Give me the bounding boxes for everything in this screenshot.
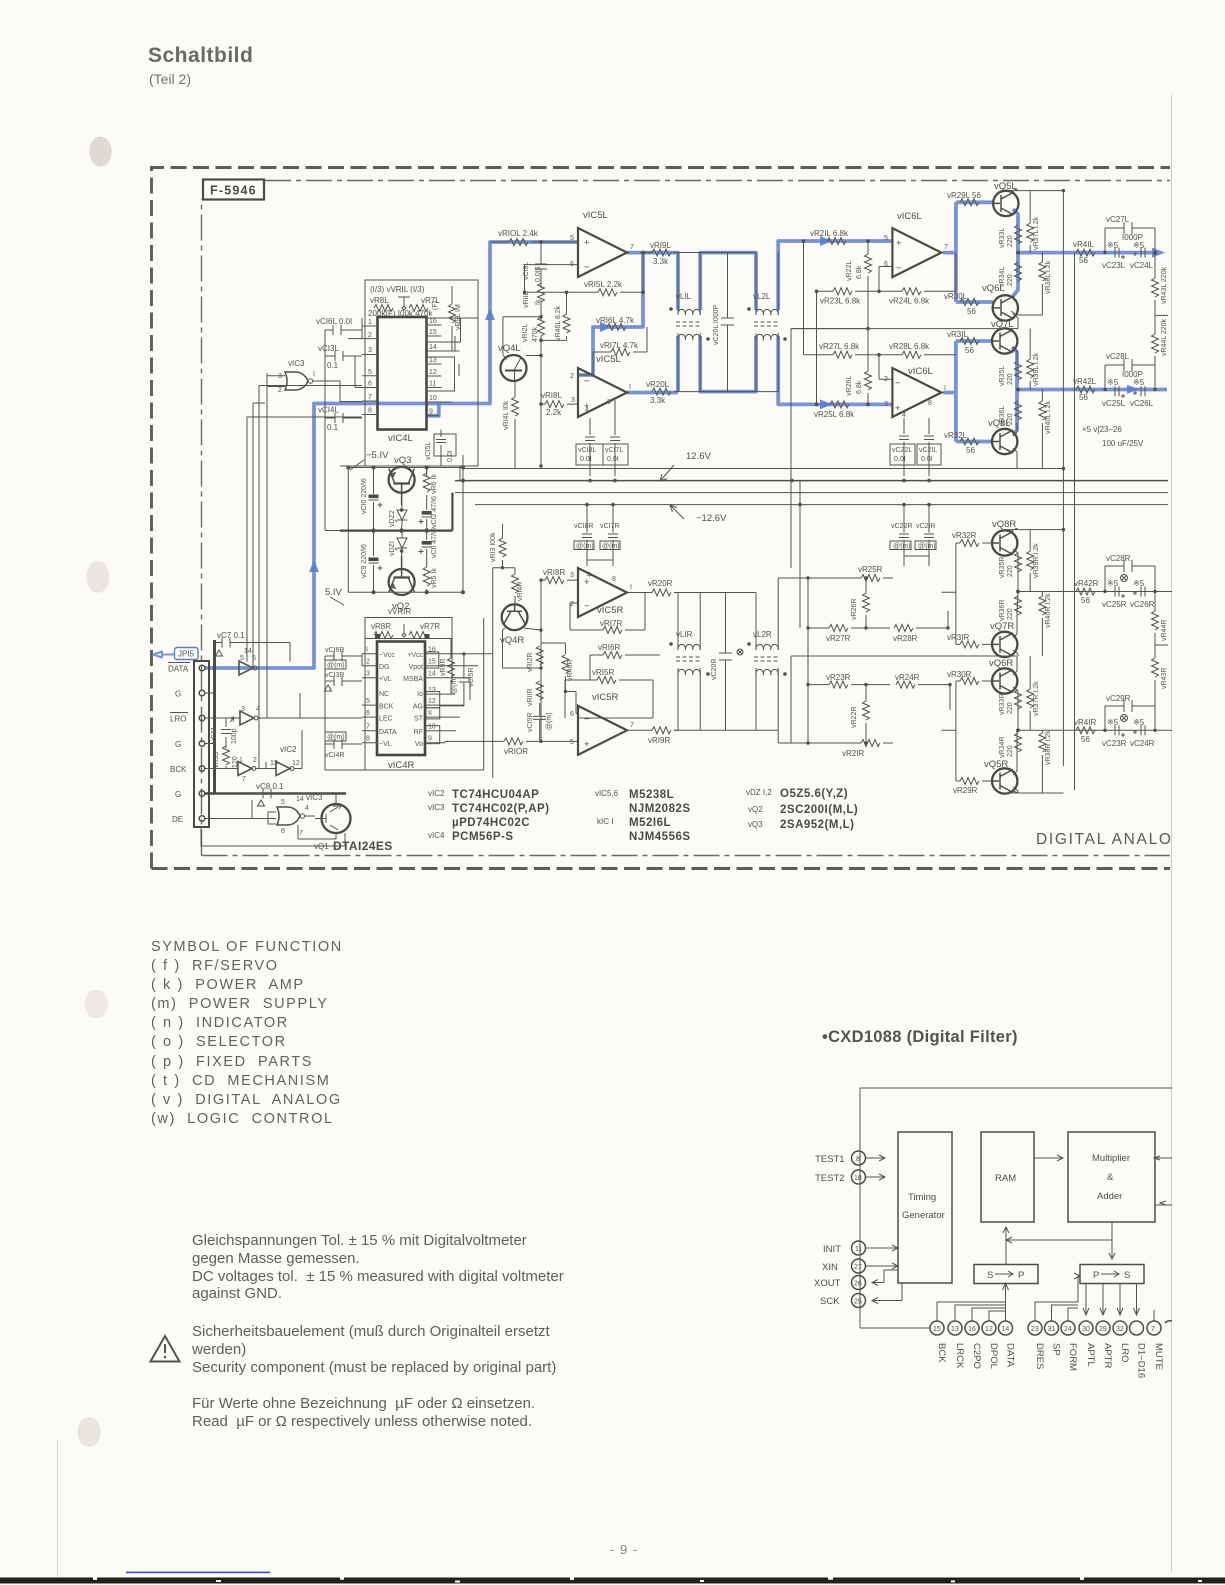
capacitor vC16L (316, 317, 362, 335)
svg-text:vRI4R: vRI4R (517, 582, 524, 601)
inductor vL2R core (754, 657, 780, 661)
svg-text:LRO: LRO (1119, 1343, 1130, 1363)
svg-text:7: 7 (299, 830, 303, 837)
svg-text:vR36L: vR36L (999, 406, 1006, 426)
resistor vR9R (440, 639, 455, 695)
svg-text:5: 5 (570, 235, 574, 242)
svg-text:vR37L I.2k: vR37L I.2k (1033, 216, 1040, 250)
resistor vR27L (804, 342, 903, 358)
block RAM (981, 1132, 1034, 1222)
wire LRO net (205, 693, 362, 718)
label 5.1V (325, 587, 344, 605)
svg-text:vR26L: vR26L (846, 376, 853, 396)
pin group box IC4R 10-9 (426, 726, 440, 744)
svg-text:0.1: 0.1 (327, 361, 339, 370)
wire right buffer bus (941, 543, 992, 781)
resistor vR29R 56 (953, 778, 979, 796)
resistor vR29L 56 (947, 191, 982, 206)
wire vC7 drop (247, 643, 290, 662)
capacitor vC28L bridge (1105, 352, 1155, 390)
svg-text:vR20R: vR20R (648, 579, 673, 588)
parts column 3 (746, 788, 858, 831)
svg-text:S: S (987, 1270, 993, 1281)
svg-text:13: 13 (951, 1326, 959, 1333)
inverter vIC2a (DATA) (239, 648, 257, 675)
wire op supply drops (587, 404, 929, 628)
svg-text:vQ6R: vQ6R (989, 658, 1013, 669)
svg-text:V​pot: V​pot (409, 664, 423, 671)
svg-text:vR32L: vR32L (944, 431, 968, 440)
svg-text:×5 v[23–26: ×5 v[23–26 (1082, 425, 1122, 434)
transistor vQ5R (992, 768, 1017, 793)
resistor vR11R (527, 681, 543, 706)
capacitor vC19R (527, 703, 553, 741)
pin G3 (199, 791, 205, 797)
resistor vR21L 6.8k (810, 229, 849, 245)
svg-text:vIC2: vIC2 (280, 745, 297, 754)
svg-text:vRIOL 2.4k: vRIOL 2.4k (498, 229, 539, 238)
svg-text:2.2k: 2.2k (546, 408, 562, 417)
outer dashed frame (152, 168, 1171, 869)
svg-text:9: 9 (429, 409, 433, 416)
svg-text:SP: SP (1051, 1343, 1062, 1356)
svg-text:vLIL: vLIL (676, 292, 692, 301)
outer dashed frame bottom (152, 867, 1171, 870)
svg-text:Adder: Adder (1097, 1191, 1122, 1202)
wire +12.6V rail upper feed (463, 468, 1063, 470)
svg-text:vC28R: vC28R (1106, 554, 1131, 563)
svg-text:vRI7L 4.7k: vRI7L 4.7k (600, 341, 639, 350)
wire -12.6V rail (475, 504, 1168, 506)
IC vIC4L right pins (427, 325, 460, 416)
pin numbers right IC4R (428, 647, 436, 743)
transistor vQ5L (993, 191, 1019, 216)
op-amp vIC6L (bottom) (884, 366, 946, 419)
wire vQ8R collector top (1006, 528, 1063, 532)
svg-text:6: 6 (366, 710, 370, 717)
junction dots crossover (802, 239, 881, 406)
bottom pin DPOL (982, 1311, 1005, 1369)
capacitor vC17R (600, 505, 620, 566)
svg-text:vQ4R: vQ4R (500, 635, 524, 646)
svg-text:+: + (896, 238, 902, 249)
capacitor vC7 (215, 631, 291, 656)
wire bias node (493, 568, 515, 778)
trimmer network box vVR1L (365, 280, 478, 466)
subtitle (Teil 2) (149, 71, 191, 87)
capacitor vC24L (1130, 241, 1154, 270)
svg-text:3: 3 (368, 347, 372, 354)
phase dots right (669, 642, 787, 676)
svg-text:vCI8L: vCI8L (578, 447, 596, 454)
svg-text:DPOL: DPOL (988, 1343, 999, 1369)
svg-text:vL2L: vL2L (753, 292, 771, 301)
inductor vL2R bottom winding (756, 668, 778, 730)
svg-text:(F): (F) (432, 301, 439, 310)
wire vQ4R loop (503, 580, 542, 741)
svg-text:vRI5L 2.2k: vRI5L 2.2k (584, 280, 623, 289)
svg-text:vIC5,6: vIC5,6 (595, 789, 619, 798)
svg-text:6: 6 (281, 828, 285, 835)
svg-text:vR42R: vR42R (1074, 579, 1099, 588)
resistor vR44L 220k (1152, 315, 1169, 366)
pin BCK (199, 766, 205, 772)
wire LC link top (673, 253, 778, 392)
resistor vR27R (808, 625, 890, 644)
wire riser joins (253, 376, 362, 403)
svg-text:vRI9L: vRI9L (650, 241, 671, 250)
svg-text:vIC4: vIC4 (428, 831, 445, 840)
op-amp vIC6L (top) (884, 211, 948, 277)
svg-text:vRI8R: vRI8R (543, 568, 565, 577)
phase dots (669, 307, 787, 341)
wire vQ6L emitter return (791, 314, 1018, 329)
svg-text:vR53: vR53 (213, 752, 220, 768)
svg-text:vQ2: vQ2 (748, 805, 763, 814)
svg-text:vC25L: vC25L (1102, 399, 1126, 408)
svg-text:DRES: DRES (1034, 1343, 1045, 1369)
svg-text:※5: ※5 (1133, 241, 1145, 250)
svg-text:I000P: I000P (1122, 233, 1143, 242)
svg-text:56: 56 (1081, 596, 1090, 605)
bottom pin SP (1045, 1305, 1079, 1356)
svg-text:vRIOR: vRIOR (504, 747, 528, 756)
junction dots mid column (501, 566, 567, 743)
label vQ1 DTA124ES (314, 839, 393, 853)
svg-text:−12.6V: −12.6V (696, 513, 727, 524)
note security component (192, 1323, 556, 1376)
svg-text:vRI2L: vRI2L (522, 324, 529, 342)
svg-text:vR40L I.2k: vR40L I.2k (1045, 400, 1052, 434)
svg-text:NJM4556S: NJM4556S (629, 831, 691, 843)
svg-text:0.1: 0.1 (327, 423, 339, 432)
svg-text:vR35L: vR35L (999, 366, 1006, 386)
inverter vIC2b (LRO) (240, 706, 260, 725)
svg-text:220: 220 (1007, 565, 1014, 577)
svg-text:4: 4 (585, 407, 589, 414)
resistor vR18L 2.2k (541, 391, 578, 417)
svg-text:4: 4 (305, 805, 309, 812)
svg-text:M52I6L: M52I6L (629, 817, 671, 829)
svg-text:16: 16 (429, 318, 437, 325)
junction mark (737, 649, 743, 655)
svg-text:vRI7R: vRI7R (600, 619, 622, 628)
long vertical feed B (1074, 253, 1076, 790)
svg-text:+: + (895, 403, 901, 414)
arrow blue vR25L (820, 399, 832, 409)
svg-text:vCI0 220/I6: vCI0 220/I6 (361, 478, 368, 514)
svg-text:12.6V: 12.6V (686, 451, 711, 462)
svg-text:INIT: INIT (823, 1244, 841, 1255)
hole punch upper-middle (86, 561, 109, 593)
transistor vQ2 (389, 556, 415, 595)
svg-text:vR30R: vR30R (947, 670, 972, 679)
capacitor vC11 47/16 (419, 528, 439, 558)
IC vIC4L left pins (362, 326, 378, 415)
resistor vR13 100k (490, 524, 506, 568)
capacitor vC15R (451, 654, 475, 706)
svg-text:BCK: BCK (170, 765, 187, 774)
svg-text:V​o: V​o (415, 741, 423, 748)
svg-text:13: 13 (428, 687, 436, 694)
inner dash-dot frame (202, 181, 1171, 856)
svg-text:C2PO: C2PO (971, 1343, 982, 1369)
resistor vR15R (565, 668, 653, 718)
wire power section frame (325, 455, 463, 592)
capacitor vC13R (325, 672, 363, 691)
svg-text:29: 29 (1099, 1326, 1107, 1333)
inductor vL2L top winding (756, 253, 778, 316)
resistor vR32L 56 (944, 431, 979, 455)
IC vIC4R body (377, 642, 425, 756)
capacitor vC28R bridge (1105, 554, 1155, 592)
svg-text:vQ7R: vQ7R (990, 621, 1014, 632)
resistor vR38L 1.2k (1011, 253, 1052, 315)
capacitor vC22L (890, 418, 915, 476)
svg-text:15: 15 (429, 329, 437, 336)
zener vDZ2 (389, 505, 407, 527)
page number (610, 1542, 638, 1557)
resistor vR34R 220 (999, 733, 1022, 758)
svg-text:G: G (175, 690, 181, 699)
resistor vR26R vertical (851, 578, 870, 628)
wire right main outs (1018, 592, 1172, 731)
resistor vR12L 470k (522, 317, 545, 342)
svg-text:TEST2: TEST2 (815, 1173, 845, 1184)
svg-text:3.3k: 3.3k (650, 396, 666, 405)
svg-text:2: 2 (368, 332, 372, 339)
svg-text:vR25R: vR25R (858, 565, 883, 574)
svg-text:DATA: DATA (379, 729, 397, 736)
resistor vR9L 1M (449, 286, 463, 351)
junction dots power (346, 466, 465, 595)
svg-text:II: II (428, 710, 432, 717)
resistor vR15L 2.2k (525, 253, 644, 296)
svg-text:10: 10 (428, 724, 436, 731)
resistor vR37R 1.2k (1027, 656, 1040, 730)
svg-text:15: 15 (933, 1326, 941, 1333)
svg-text:※5: ※5 (1107, 378, 1119, 387)
svg-text:I: I (630, 584, 632, 591)
svg-text:6: 6 (570, 711, 574, 718)
svg-text:※5: ※5 (1107, 579, 1119, 588)
capacitor vC31 100p (211, 717, 238, 748)
svg-text:7: 7 (1151, 1326, 1155, 1333)
capacitor vC20R (711, 593, 732, 731)
note electrolytic (1082, 425, 1144, 448)
svg-text:vR20L: vR20L (646, 380, 670, 389)
svg-text:−: − (584, 262, 590, 273)
connector JP15 label box (175, 648, 199, 660)
svg-text:vIC2: vIC2 (428, 789, 445, 798)
wire blue vL2L to amps (778, 241, 892, 404)
warning triangle (151, 1336, 180, 1362)
svg-text:3: 3 (241, 706, 245, 713)
svg-text:0.0I: 0.0I (607, 456, 619, 463)
capacitor vC21R (915, 505, 936, 566)
pin numbers left IC4R (366, 647, 370, 743)
svg-text:vC20R: vC20R (711, 659, 718, 680)
svg-text:14: 14 (429, 344, 437, 351)
resistor vR17L 4.7k (578, 327, 647, 375)
svg-text:vL2R: vL2R (753, 630, 772, 639)
svg-text:vR23L 6.8k: vR23L 6.8k (820, 297, 861, 306)
svg-text:vC9 220/I6: vC9 220/I6 (361, 544, 368, 578)
svg-text:56: 56 (967, 307, 976, 316)
pin DE (199, 816, 205, 822)
svg-text:vC24L: vC24L (1130, 261, 1154, 270)
svg-text:220: 220 (1007, 745, 1014, 757)
svg-text:3: 3 (884, 401, 888, 408)
wire IC4R right nets (440, 654, 493, 731)
svg-text:vC24R: vC24R (1130, 739, 1155, 748)
svg-text:vR46R: vR46R (567, 660, 574, 681)
svg-text:14: 14 (428, 671, 436, 678)
svg-text:vC26L: vC26L (1130, 399, 1154, 408)
pin LRO (199, 715, 205, 721)
svg-text:200k(F) I00k 470k: 200k(F) I00k 470k (368, 309, 433, 318)
svg-text:vRIIR: vRIIR (527, 689, 534, 707)
svg-text:25: 25 (854, 1299, 862, 1306)
wire cross link (1006, 1237, 1112, 1243)
svg-text:DG: DG (379, 664, 390, 671)
resistor vR46R (541, 643, 578, 714)
svg-text:vR30L: vR30L (944, 292, 968, 301)
wire blue output top (1018, 251, 1157, 255)
connector JP15 body (194, 661, 209, 827)
svg-text:DTAI24ES: DTAI24ES (333, 839, 393, 853)
pin group box IC4R 13-12 (426, 692, 440, 708)
capacitor vC13L (318, 344, 362, 370)
resistor vR16L 4.7k (596, 316, 635, 331)
svg-text:vC8 0.1: vC8 0.1 (256, 782, 284, 791)
svg-text:15: 15 (428, 659, 436, 666)
svg-text:27: 27 (854, 1264, 862, 1271)
svg-text:2: 2 (884, 376, 888, 383)
svg-text:vC22L: vC22L (892, 447, 912, 454)
svg-text:vR34R: vR34R (999, 737, 1006, 758)
pin G2 (199, 741, 205, 747)
svg-text:14: 14 (1002, 1326, 1010, 1333)
capacitor vC14L (318, 406, 362, 433)
svg-text:※5: ※5 (1133, 718, 1145, 727)
resistor vR43L 220k (1152, 253, 1169, 316)
pin XOUT (814, 1270, 898, 1290)
svg-text:3: 3 (570, 572, 574, 579)
svg-text:APTR: APTR (1102, 1343, 1113, 1368)
svg-text:5: 5 (281, 799, 285, 806)
svg-text:XOUT: XOUT (814, 1278, 841, 1289)
arrow blue vR16L (600, 322, 612, 332)
pin SCK (820, 1283, 902, 1308)
svg-text:@(m): @(m) (602, 543, 620, 550)
svg-text:vCII 47/I6: vCII 47/I6 (431, 528, 438, 558)
wire bus riser 1 (247, 417, 362, 662)
svg-text:5: 5 (368, 369, 372, 376)
svg-text:vR36R: vR36R (999, 600, 1006, 621)
resistor vR25L 6.8k (814, 401, 855, 419)
wire +12.6V rail (455, 480, 1168, 482)
wire vQ5L collector top (1006, 189, 1063, 192)
svg-text:vR6 Ik: vR6 Ik (431, 474, 438, 494)
svg-text:@(m): @(m) (918, 543, 936, 550)
resistor vR19L 3.3k (650, 241, 671, 266)
svg-text:BCK: BCK (936, 1343, 947, 1363)
svg-text:DATA: DATA (1005, 1343, 1016, 1368)
resistor vR33L 220 (999, 225, 1022, 248)
arrow blue JP15 (153, 652, 174, 658)
label -5.1V (350, 450, 389, 470)
resistor vR38R 1.2k (1039, 730, 1052, 793)
svg-text:10: 10 (429, 395, 437, 402)
svg-text:3: 3 (571, 397, 575, 404)
svg-text:@(m): @(m) (327, 662, 345, 669)
svg-text:14: 14 (296, 796, 304, 803)
svg-text:220: 220 (1007, 235, 1014, 247)
svg-text:0.0I: 0.0I (580, 456, 592, 463)
svg-text:vR25L 6.8k: vR25L 6.8k (814, 410, 855, 419)
inductor vL2L bottom winding (756, 333, 778, 392)
bottom pin MUTE (1147, 1310, 1164, 1370)
svg-text:11: 11 (855, 1246, 862, 1253)
svg-text:100 uF/25V: 100 uF/25V (1102, 439, 1144, 448)
label 12.6V (660, 451, 711, 481)
arrow blue riser1 (309, 560, 319, 572)
svg-text:vQ3: vQ3 (748, 820, 763, 829)
pin group box IC4R 11 (426, 708, 440, 719)
resistor vR24R (895, 673, 950, 710)
svg-text:2: 2 (253, 757, 257, 764)
svg-text:vQ3: vQ3 (394, 455, 411, 466)
wire bus riser 2 (253, 403, 255, 668)
resistor vR34L 220 (999, 262, 1022, 287)
svg-text:56: 56 (1079, 393, 1088, 402)
block Multiplier Adder (1068, 1132, 1155, 1222)
resistor vR18R (541, 568, 578, 584)
pin XIN (822, 1259, 898, 1273)
svg-text:PCM56P-S: PCM56P-S (452, 831, 514, 843)
resistor vR26L vertical (846, 371, 872, 396)
svg-text:13: 13 (429, 357, 437, 364)
wire vQ7L emitter / vQ8L collector (1013, 347, 1017, 469)
svg-text:vR22R: vR22R (851, 707, 858, 728)
note DC voltages tolerance (192, 1232, 564, 1303)
svg-text:F-5946: F-5946 (210, 184, 257, 198)
wire BCK net (205, 730, 302, 769)
svg-text:※5: ※5 (1107, 718, 1119, 727)
capacitor vC9 220/16 (361, 538, 383, 578)
label LRO (170, 713, 188, 724)
capacitor vC18R (574, 505, 594, 566)
svg-text:8: 8 (856, 1156, 860, 1163)
svg-text:vDZ I,2: vDZ I,2 (746, 788, 772, 797)
wire emitter joins right (1013, 549, 1018, 793)
resistor vR20R (627, 579, 678, 596)
svg-text:SCK: SCK (820, 1296, 840, 1307)
capacitor vC24R (1130, 718, 1155, 748)
svg-text:vR33R: vR33R (999, 694, 1006, 715)
svg-text:vIC5L: vIC5L (583, 210, 608, 221)
transistor vQ8R (992, 530, 1017, 555)
svg-text:4: 4 (902, 412, 906, 419)
svg-text:vCI8R: vCI8R (574, 523, 593, 530)
wire op1L feedback top (640, 252, 653, 254)
svg-text:vR43L 220k: vR43L 220k (1161, 266, 1168, 304)
resistor vR42R 56 (1074, 579, 1099, 605)
svg-text:6: 6 (368, 381, 372, 388)
svg-text:Ik: Ik (535, 299, 542, 305)
NOR gate vIC3a (278, 359, 315, 394)
